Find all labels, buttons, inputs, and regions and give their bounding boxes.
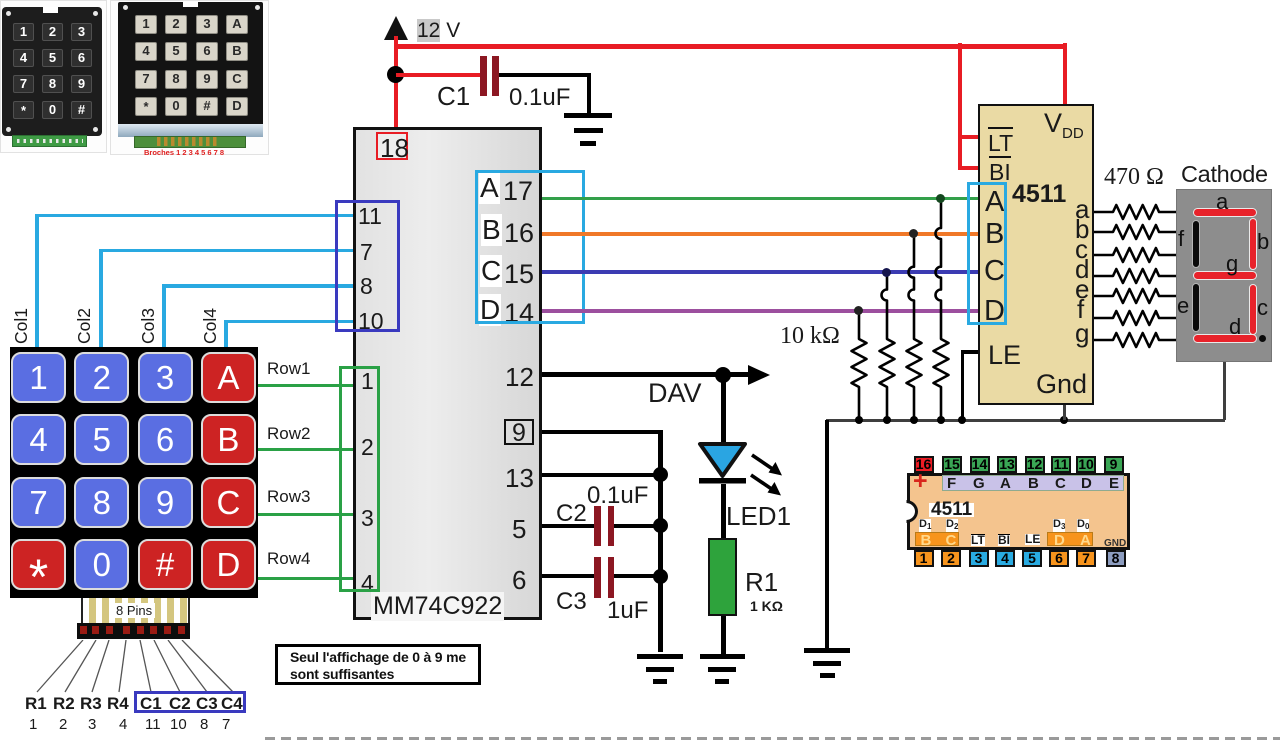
node dot on A line [936, 194, 945, 203]
wire pin6 to C3 [542, 574, 594, 578]
C1 value 0.1uF [509, 84, 570, 112]
C3 value [607, 597, 648, 625]
pin B label [481, 214, 502, 246]
pinout pin 8 [1106, 550, 1126, 568]
pinout G [973, 475, 985, 492]
pin c label [1075, 234, 1088, 265]
wire C3 to rail [614, 574, 660, 578]
IC U1 MM74C922 body [353, 127, 542, 620]
wire col4 cyan [224, 320, 228, 348]
wire C2 to rail [614, 524, 660, 528]
4511 label [1012, 180, 1066, 209]
capacitor C2 [594, 506, 601, 546]
key 0 [74, 539, 129, 590]
wire red branch to LT/BI [958, 43, 962, 170]
pinout LT label [971, 534, 985, 546]
pin D label [984, 295, 1005, 328]
wire pin13 [542, 473, 660, 477]
node dot pin13 rail [653, 467, 668, 482]
connector pins (red) [80, 626, 87, 634]
resistor 470R a [1094, 202, 1176, 222]
wire LE to rail [961, 350, 978, 354]
display label g [1226, 251, 1238, 277]
C2 value [587, 482, 648, 510]
wire display cathode drop [1223, 362, 1226, 420]
wire C1 branch red [396, 73, 480, 77]
pin 4 label [361, 570, 374, 597]
segment e (black) [1192, 283, 1200, 332]
wire 4511 Gnd drop [1063, 405, 1066, 420]
pin g label [1075, 318, 1089, 349]
pinout D0 label [1077, 519, 1089, 532]
resistor 470R b [1094, 222, 1176, 242]
12V supply arrow [382, 14, 412, 42]
pin 14 label [504, 298, 534, 329]
pinout 4511 label [929, 503, 974, 517]
wire pin9 [542, 430, 662, 434]
wire DAV to LED [721, 374, 726, 448]
resistor 470R c [1094, 245, 1176, 265]
key 5 [74, 414, 129, 465]
pinout pin 10 [1076, 456, 1096, 474]
segment a (red) [1193, 208, 1257, 217]
key 6 [138, 414, 193, 465]
wire C output blue [542, 270, 978, 274]
Row1 label [267, 359, 310, 379]
Col1 label [11, 308, 32, 344]
resistor 470R f [1094, 308, 1176, 328]
resistor R1 (green) [708, 538, 737, 616]
photo2 gold pins [157, 137, 219, 146]
key 1 [11, 352, 66, 403]
green box around pins 1-4 [339, 366, 380, 592]
DAV label [648, 378, 702, 409]
pin 3 label [361, 505, 374, 532]
wire row4 green [258, 577, 353, 580]
key 8 [74, 477, 129, 528]
ground rail [826, 419, 1225, 422]
wire DAV [542, 372, 754, 377]
wire LED to R1 [721, 484, 726, 538]
pin LT label (overline) [988, 127, 1013, 157]
bottom dashed line [265, 737, 1280, 740]
pin 18 label (red box) [376, 132, 408, 160]
wire col1 cyan [35, 214, 39, 348]
wire R1 to ground [721, 616, 726, 654]
LED light arrows [744, 448, 790, 502]
pin 15 label [504, 259, 534, 290]
display label f [1178, 226, 1184, 252]
pin 9 label (boxed) [504, 419, 534, 445]
pin A label [985, 186, 1004, 219]
Row4 label [267, 549, 310, 569]
pinout C (band) [1055, 475, 1066, 492]
wire B output orange [542, 232, 978, 236]
photo1 keys [13, 23, 92, 123]
photo2 keys [135, 15, 245, 122]
pin 13 label [505, 463, 534, 494]
wire pin5 to C2 [542, 524, 594, 528]
pin D label [479, 294, 501, 326]
photo1 top notch [43, 7, 58, 13]
pinout D1 label [919, 519, 931, 532]
key B [201, 414, 256, 465]
pin 12 label [505, 362, 534, 393]
pinout pin 14 [970, 456, 990, 474]
wire timing rail vertical [658, 430, 663, 652]
7-segment display body [1176, 189, 1272, 362]
C1 label [437, 81, 470, 112]
VDD label [1044, 108, 1084, 142]
pin b label [1075, 214, 1089, 245]
connector fan-out lines [20, 640, 260, 696]
decimal point [1259, 335, 1266, 342]
pin 7 label [360, 239, 373, 266]
photo frame left [0, 0, 107, 153]
wire A output green [542, 197, 978, 201]
cyan box around 4511 ABCD [967, 182, 1008, 325]
wire row3 green [258, 513, 353, 516]
pin BI label (overline) [989, 156, 1011, 186]
blue box around pins 11 7 8 10 [335, 200, 401, 332]
pinout pin 13 [997, 456, 1017, 474]
photo2 screws [123, 5, 128, 10]
pinout pin 11 [1051, 456, 1071, 474]
Row3 label [267, 487, 310, 507]
node dot on D line [854, 306, 863, 315]
wire col3 cyan [162, 284, 166, 347]
node dot C3 rail [653, 569, 668, 584]
pinout pin 12 [1025, 456, 1045, 474]
key 7 [11, 477, 66, 528]
pin 16 label [504, 218, 534, 249]
pinout E (band) [1109, 475, 1119, 492]
pin 17 label [503, 176, 533, 207]
pinout B (band) [1028, 475, 1039, 492]
Gnd label [1036, 369, 1087, 400]
wire rail left drop [825, 420, 829, 648]
pinout LE label [1025, 534, 1040, 545]
wire row1 green [258, 384, 353, 387]
pinout F [947, 475, 956, 492]
key * [11, 539, 66, 590]
pinout pin 15 [942, 456, 962, 474]
pinout D2 label [946, 519, 958, 532]
R1 value 1 KΩ [750, 598, 783, 614]
key C [201, 477, 256, 528]
pin e label [1075, 274, 1089, 305]
pin 6 label [512, 565, 526, 596]
resistor pulldown 2 (C line) [877, 272, 897, 422]
wire col2 cyan [99, 249, 103, 348]
pinout notch [894, 500, 918, 523]
pinout A (band) [1000, 475, 1011, 492]
photo1 screws [6, 11, 11, 16]
node junction at C1 branch [387, 66, 404, 83]
ground (R1) [699, 653, 701, 655]
key D [201, 539, 256, 590]
node dot C2 rail [653, 518, 668, 533]
segment b (red) [1249, 218, 1257, 270]
pin C label [984, 255, 1005, 288]
node dot on B line [909, 229, 918, 238]
capacitor C3 [594, 557, 601, 598]
wire D output purple [542, 309, 978, 313]
pinout BI label [998, 534, 1010, 546]
R1 label [745, 567, 778, 598]
pinout GND label [1104, 538, 1126, 549]
pin 1 label [361, 368, 374, 395]
cyan box around ABCD outputs [475, 170, 585, 325]
pinout pin 9 [1104, 456, 1124, 474]
photo2 red caption [144, 148, 224, 157]
photo1 green pcb [12, 135, 87, 147]
pinout pin 3 [969, 550, 989, 568]
resistor pulldown 3 (B line) [904, 233, 924, 422]
segment g (red) [1193, 271, 1257, 280]
LED1 label [726, 501, 791, 532]
display label e [1177, 293, 1189, 319]
pin 11 label [358, 203, 382, 230]
pin name labels R1-R4 C1-C4 [0, 693, 1, 695]
pinout pin 7 [1076, 550, 1096, 568]
wire stub to LT [958, 135, 979, 139]
pin f label [1077, 294, 1084, 325]
pin 5 label [512, 514, 526, 545]
pinout lavender band F G A B C D E [942, 475, 1124, 491]
pinout pin 5 [1022, 550, 1042, 568]
C2 label [556, 500, 587, 528]
keypad photo 2 body (4x4 keypad) [118, 2, 263, 134]
wire C1 to ground [499, 73, 589, 77]
keypad photo 1 body (3x4 keypad) [2, 7, 102, 136]
photo2 green pcb [134, 136, 246, 148]
segment c (red) [1249, 284, 1257, 335]
pinout chip body [907, 473, 1130, 550]
DAV arrowhead [748, 365, 770, 385]
12V label [417, 19, 460, 43]
pinout pin 2 [941, 550, 961, 568]
capacitor C1 [480, 56, 487, 96]
pinout pin 1 [914, 550, 934, 568]
connector black bar [77, 623, 190, 639]
resistor pulldown 1 (D line) [849, 310, 869, 422]
note box [275, 644, 481, 685]
resistor 470R g [1094, 330, 1176, 350]
blue box around C1-C4 [134, 691, 246, 713]
pin 10 label [358, 308, 384, 335]
key 4 [11, 414, 66, 465]
resistor pulldown 4 (A line) [931, 198, 951, 422]
wire red VDD drop [1063, 43, 1067, 105]
key 2 [74, 352, 129, 403]
wire 12V top rail [394, 44, 1067, 49]
ground (timing rail) [636, 653, 638, 655]
Cathode label [1181, 161, 1268, 188]
display label c [1257, 295, 1268, 321]
photo frame right [110, 0, 269, 155]
wire row2 green [258, 448, 353, 451]
pin d label [1075, 254, 1089, 285]
pin 8 label [360, 273, 373, 300]
Row2 label [267, 424, 310, 444]
resistor 470R e [1094, 286, 1176, 306]
pinout orange band B C [915, 532, 959, 546]
LED1 diode triangle [696, 442, 749, 486]
C3 label [556, 588, 587, 616]
pin number labels [0, 715, 1, 717]
key A [201, 352, 256, 403]
pin B label [985, 218, 1004, 251]
connector ribbon 8 pins [81, 598, 190, 624]
keypad body [10, 347, 258, 598]
pin C label [480, 255, 502, 287]
pin a label [1075, 194, 1089, 225]
ground (C1) [563, 112, 565, 114]
key 3 [138, 352, 193, 403]
segment d (red) [1193, 334, 1257, 343]
IC U2 4511 body [978, 104, 1094, 405]
pinout D3 label [1053, 519, 1065, 532]
pinout + mark [913, 467, 928, 496]
key 9 [138, 477, 193, 528]
display label b [1257, 229, 1269, 255]
node dot on C line [882, 268, 891, 277]
IC U1 label MM74C922 [371, 592, 504, 621]
display label d [1229, 314, 1241, 340]
Col3 label [138, 308, 159, 344]
pinout D (band) [1081, 475, 1092, 492]
node DAV junction [715, 367, 731, 383]
Col4 label [200, 308, 221, 344]
470 Ω label [1104, 164, 1164, 191]
pinout pin 6 [1049, 550, 1069, 568]
pinout pin 16 [914, 456, 934, 474]
display label a [1216, 189, 1228, 215]
pin A label [479, 172, 500, 204]
wire stub to BI [958, 166, 979, 170]
pinout pin 4 [995, 550, 1015, 568]
wire 12V vertical [394, 36, 398, 129]
node dots on ground rail [855, 416, 863, 424]
Col2 label [74, 308, 95, 344]
photo2 shiny strip [118, 124, 263, 137]
ground (rail) [803, 647, 805, 649]
photo2 top notch [183, 2, 198, 7]
10 kΩ label [780, 323, 840, 350]
pin 2 label [361, 434, 374, 461]
resistor 470R d [1094, 266, 1176, 286]
key # [138, 539, 193, 590]
segment f (black) [1192, 220, 1200, 268]
pin LE label [988, 340, 1021, 371]
8 Pins label [113, 603, 155, 618]
pinout orange band D A [1047, 532, 1093, 546]
